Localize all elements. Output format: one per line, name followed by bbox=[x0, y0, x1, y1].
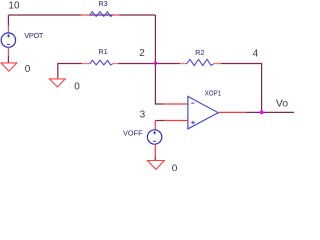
svg-text:R2: R2 bbox=[195, 48, 204, 57]
svg-text:2: 2 bbox=[139, 48, 145, 59]
wire VPOT top pin stub bbox=[7, 26, 9, 34]
svg-text:0: 0 bbox=[74, 82, 80, 93]
svg-text:4: 4 bbox=[253, 48, 259, 59]
svg-text:Vo: Vo bbox=[276, 98, 289, 109]
svg-text:VOFF: VOFF bbox=[123, 128, 143, 137]
wire feedback vertical (node 2 column) bbox=[154, 15, 156, 104]
svg-text:XOP1: XOP1 bbox=[205, 89, 222, 98]
pin stub VOFF top bbox=[154, 121, 156, 131]
pin stub op-amp output bbox=[218, 111, 246, 113]
wire top horizontal from VPOT to R3 to feedback corner bbox=[8, 14, 155, 16]
ground (R1 input) bbox=[49, 79, 65, 87]
ground (R1 input) wire corner bbox=[58, 64, 82, 79]
svg-text:0: 0 bbox=[172, 164, 178, 171]
ground (VPOT) bbox=[1, 63, 17, 71]
wire to ground bbox=[7, 56, 9, 63]
resistor R3 bbox=[81, 12, 119, 17]
svg-text:R1: R1 bbox=[98, 47, 107, 56]
wire output to right edge bbox=[246, 111, 294, 113]
op-amp XOP1 bbox=[188, 96, 218, 128]
wire R1 to node 2 bbox=[118, 63, 155, 65]
svg-text:3: 3 bbox=[140, 109, 146, 120]
resistor R1 bbox=[82, 60, 119, 65]
pin stub op-amp minus input bbox=[164, 103, 188, 105]
wire node 2 to R2 bbox=[155, 63, 179, 65]
voltage source VOFF bbox=[147, 130, 161, 144]
junction output node bbox=[260, 111, 264, 115]
ground (VOFF) bbox=[148, 161, 165, 170]
wire R2 to node 4 corner down to output bbox=[221, 64, 262, 113]
pin stub op-amp plus input bbox=[164, 120, 188, 122]
resistor R2 bbox=[180, 59, 221, 65]
svg-text:R3: R3 bbox=[98, 0, 107, 8]
wire node 2 column corner to op-amp minus bbox=[155, 103, 164, 106]
svg-text:10: 10 bbox=[8, 0, 20, 11]
wire to ground (VOFF) bbox=[154, 157, 156, 160]
junction node 2 bbox=[154, 62, 157, 65]
pin stub VOFF bottom bbox=[154, 144, 156, 158]
wire VOFF corner to op-amp plus bbox=[155, 120, 164, 122]
svg-text:0: 0 bbox=[25, 64, 31, 75]
wire VPOT bottom pin stub bbox=[7, 47, 9, 56]
svg-text:VPOT: VPOT bbox=[24, 31, 44, 40]
voltage source VPOT bbox=[1, 33, 15, 47]
wire vertical VPOT top bbox=[7, 15, 9, 26]
